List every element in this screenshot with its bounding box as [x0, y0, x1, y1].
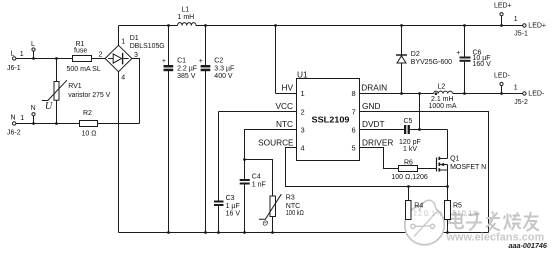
diode D2 [396, 51, 452, 66]
svg-text:VCC: VCC [275, 101, 293, 111]
svg-text:10 Ω: 10 Ω [82, 131, 97, 138]
capacitor C4 [240, 173, 266, 188]
connector J5-2 [514, 85, 545, 106]
svg-text:aaa-001746: aaa-001746 [509, 241, 548, 250]
svg-text:U1: U1 [297, 70, 308, 80]
wire: L input line from J6-1 to bridge [16, 58, 105, 60]
svg-text:100 Ω,1206: 100 Ω,1206 [391, 174, 427, 181]
junction: R4 on ground rail [407, 231, 410, 234]
junction: C2 top rail [204, 24, 207, 27]
junction: RV1 top on L line [55, 57, 58, 60]
junction: LED+ test point on rail [500, 24, 503, 27]
svg-text:1: 1 [301, 89, 305, 98]
junction: test point N on N line [32, 122, 35, 125]
junction: test point L on L line [32, 57, 35, 60]
junction: R3 on ground rail [271, 231, 274, 234]
svg-text:4: 4 [121, 75, 125, 82]
svg-text:5.1 Ω, 1 %: 5.1 Ω, 1 % [453, 211, 479, 218]
svg-text:8: 8 [352, 89, 356, 98]
IC U1 SSL2109 [258, 70, 393, 161]
watermark logo circle [405, 200, 445, 245]
wire: R4 branch [408, 187, 410, 233]
svg-text:Θ: Θ [263, 220, 269, 227]
wire: bridge top to rail [118, 26, 120, 46]
wire: test point N stub [33, 116, 35, 124]
watermark chinese text [450, 212, 540, 232]
svg-text:J5-1: J5-1 [514, 30, 528, 37]
junction: C3 on ground rail [217, 231, 220, 234]
svg-text:C4: C4 [252, 173, 261, 180]
svg-text:DVDT: DVDT [362, 119, 385, 129]
wire: DRIVER net pin 5 to R6 [360, 148, 437, 169]
wire: test point LED- stub [501, 86, 503, 94]
wire: bridge pin3 to N line vertical [132, 59, 140, 124]
svg-text:1 mH: 1 mH [178, 14, 195, 21]
svg-text:DRIVER: DRIVER [362, 137, 393, 147]
svg-text:120 pF: 120 pF [399, 139, 421, 146]
svg-text:L: L [31, 41, 35, 48]
svg-text:+: + [162, 58, 166, 65]
svg-text:16 V: 16 V [226, 210, 241, 217]
svg-text:2.1 mH: 2.1 mH [431, 96, 454, 103]
inductor L2 [429, 84, 457, 111]
svg-text:N: N [31, 105, 36, 112]
resistor R5 [445, 201, 479, 220]
svg-text:1: 1 [514, 85, 518, 92]
svg-text:4: 4 [301, 144, 305, 153]
junction: C2 on ground rail [204, 231, 207, 234]
resistor R6 [391, 159, 427, 181]
svg-text:1 kV: 1 kV [403, 146, 417, 153]
wire: D2 branch [401, 26, 403, 94]
bridge rectifier D1 [99, 35, 165, 81]
wire: C5 to drain node and Q1 drain [410, 94, 448, 159]
junction: HV top rail [274, 24, 277, 27]
junction: C1 on ground rail [167, 231, 170, 234]
svg-text:Q1: Q1 [450, 156, 459, 163]
svg-text:1: 1 [20, 115, 24, 122]
capacitor C2 [199, 57, 235, 80]
svg-text:3: 3 [301, 126, 305, 135]
junction: C4 on ground rail [243, 231, 246, 234]
wire: bridge bottom to ground rail [118, 72, 120, 233]
svg-text:400 V: 400 V [214, 73, 233, 80]
svg-text:LED+: LED+ [528, 23, 546, 30]
svg-text:R5: R5 [453, 202, 462, 209]
wire: C2 branch [205, 26, 207, 233]
svg-text:BYV25G-600: BYV25G-600 [411, 59, 452, 66]
junction: C5 to drain-node vertical [418, 128, 421, 131]
svg-text:NTC: NTC [276, 119, 293, 129]
junction: D2 top rail [400, 24, 403, 27]
svg-text:2.2 µF: 2.2 µF [177, 65, 197, 72]
svg-text:R4: R4 [414, 202, 423, 209]
resistor R1 (fuse) [67, 41, 101, 73]
connector J6-1 [7, 50, 24, 72]
svg-text:R3: R3 [286, 195, 295, 202]
svg-text:C5: C5 [404, 118, 413, 125]
svg-text:J5-2: J5-2 [514, 99, 528, 106]
svg-text:160 V: 160 V [473, 61, 492, 68]
test point LED+ [494, 3, 512, 16]
svg-text:D2: D2 [411, 51, 420, 58]
svg-text:LED-: LED- [528, 91, 545, 98]
capacitor C3 [214, 195, 240, 217]
resistor R5 (symbol redrawn over watermark below) [0, 0, 1, 1]
svg-text:C1: C1 [177, 57, 186, 64]
svg-text:HV: HV [281, 83, 293, 93]
svg-text:2: 2 [99, 51, 103, 58]
resistor R2 [80, 110, 98, 137]
svg-text:C3: C3 [226, 195, 235, 202]
capacitor C6 [456, 49, 491, 68]
svg-text:NTC: NTC [286, 203, 300, 210]
inductor L1 [178, 6, 196, 25]
junction: LED- test point on line [500, 92, 503, 95]
svg-text:fuse: fuse [74, 48, 87, 55]
resistor R4 (symbol redrawn over watermark below) [0, 0, 1, 1]
wire: VCC net pin 2 to C3 [219, 112, 297, 233]
svg-text:LED+: LED+ [494, 3, 512, 10]
svg-text:+: + [456, 50, 460, 57]
svg-text:RV1: RV1 [68, 83, 82, 90]
svg-text:6: 6 [352, 126, 356, 135]
svg-text:1: 1 [514, 16, 518, 23]
wire: GND net pin 7 to ground rail [360, 112, 489, 233]
wire: DVDT net pin 6 to C5 [360, 129, 405, 131]
svg-text:DBLS105G: DBLS105G [130, 43, 165, 50]
junction: NTC node C4/R3 [243, 158, 246, 161]
svg-text:3.3 µF: 3.3 µF [214, 65, 234, 72]
svg-text:D1: D1 [130, 35, 139, 42]
svg-text:N: N [11, 114, 16, 121]
svg-text:J6-1: J6-1 [7, 65, 21, 72]
svg-text:SOURCE: SOURCE [258, 137, 294, 147]
svg-text:DRAIN: DRAIN [361, 83, 387, 93]
wire: SOURCE net pin 4 to sense resistors [286, 148, 448, 187]
svg-text:2: 2 [301, 108, 305, 117]
svg-text:R6: R6 [404, 159, 413, 166]
svg-text:MOSFET N: MOSFET N [450, 164, 486, 171]
wire: C1 branch [168, 26, 170, 233]
connector J5-1 [514, 16, 546, 37]
junction: R5 on ground rail [446, 231, 449, 234]
junction: C1 top rail [167, 24, 170, 27]
capacitor C1 [162, 57, 197, 80]
svg-text:R2: R2 [83, 110, 92, 117]
junction: R5/Q1 on source line [446, 185, 449, 188]
svg-text:1: 1 [121, 38, 125, 45]
svg-text:2.2 Ω, 1 %: 2.2 Ω, 1 % [414, 211, 443, 218]
wire: R5 / Q1 source branch [447, 165, 449, 233]
svg-text:GND: GND [362, 101, 380, 111]
wire: HV net from rail to pin 1 [276, 26, 297, 94]
test point L [31, 41, 35, 51]
svg-text:+: + [199, 58, 203, 65]
wire: bottom ground rail [119, 232, 489, 234]
transistor Q1 MOSFET N [437, 156, 487, 172]
junction: D2 on drain line [400, 92, 403, 95]
svg-text:1 µF: 1 µF [226, 203, 240, 210]
svg-text:LED-: LED- [494, 73, 511, 80]
junction: C6 on LED- line [463, 92, 466, 95]
svg-text:L: L [11, 50, 15, 57]
net label aaa-001746 [509, 241, 548, 250]
wire: test point LED+ stub [501, 16, 503, 26]
thermistor R3 NTC [259, 194, 304, 227]
svg-text:7: 7 [352, 108, 356, 117]
varistor RV1 [42, 80, 111, 112]
wire: test point L stub [33, 51, 35, 59]
junction: C6 top rail [463, 24, 466, 27]
svg-text:3: 3 [134, 52, 138, 59]
svg-text:L1: L1 [182, 6, 190, 13]
junction: C5 node on drain line [418, 92, 421, 95]
svg-text:500 mA SL: 500 mA SL [67, 66, 101, 73]
resistor R4 [406, 201, 443, 220]
svg-text:385 V: 385 V [177, 73, 196, 80]
svg-text:C2: C2 [214, 57, 223, 64]
svg-text:1000 mA: 1000 mA [429, 103, 457, 110]
svg-text:J6-2: J6-2 [7, 129, 21, 136]
svg-text:SSL2109: SSL2109 [312, 115, 351, 124]
wire: top rail [119, 25, 523, 27]
wire: LED- line after L2 [453, 93, 523, 95]
svg-text:varistor 275 V: varistor 275 V [68, 92, 110, 99]
svg-text:1: 1 [20, 51, 24, 58]
svg-text:L2: L2 [438, 84, 446, 91]
svg-text:100 kΩ: 100 kΩ [286, 210, 304, 217]
junction: RV1 bottom on N line [55, 122, 58, 125]
wire: C6 branch [464, 26, 466, 94]
wire: N input line from J6-2 to corner [16, 123, 140, 125]
connector J6-2 [7, 114, 24, 136]
svg-text:U: U [45, 101, 53, 112]
svg-text:1 nF: 1 nF [252, 182, 266, 189]
test point LED- [494, 73, 511, 86]
wire: NTC net pin 3 to C4/R3 [245, 130, 297, 233]
junction: R4 on source line [407, 185, 410, 188]
capacitor C5 [399, 118, 421, 153]
test point N [31, 105, 36, 116]
wire: RV1 branch vertical [56, 59, 58, 124]
svg-text:5: 5 [352, 144, 356, 153]
watermark www.elecfans.com [446, 232, 545, 244]
wire: DRAIN net pin 8 to L2 [360, 93, 434, 95]
